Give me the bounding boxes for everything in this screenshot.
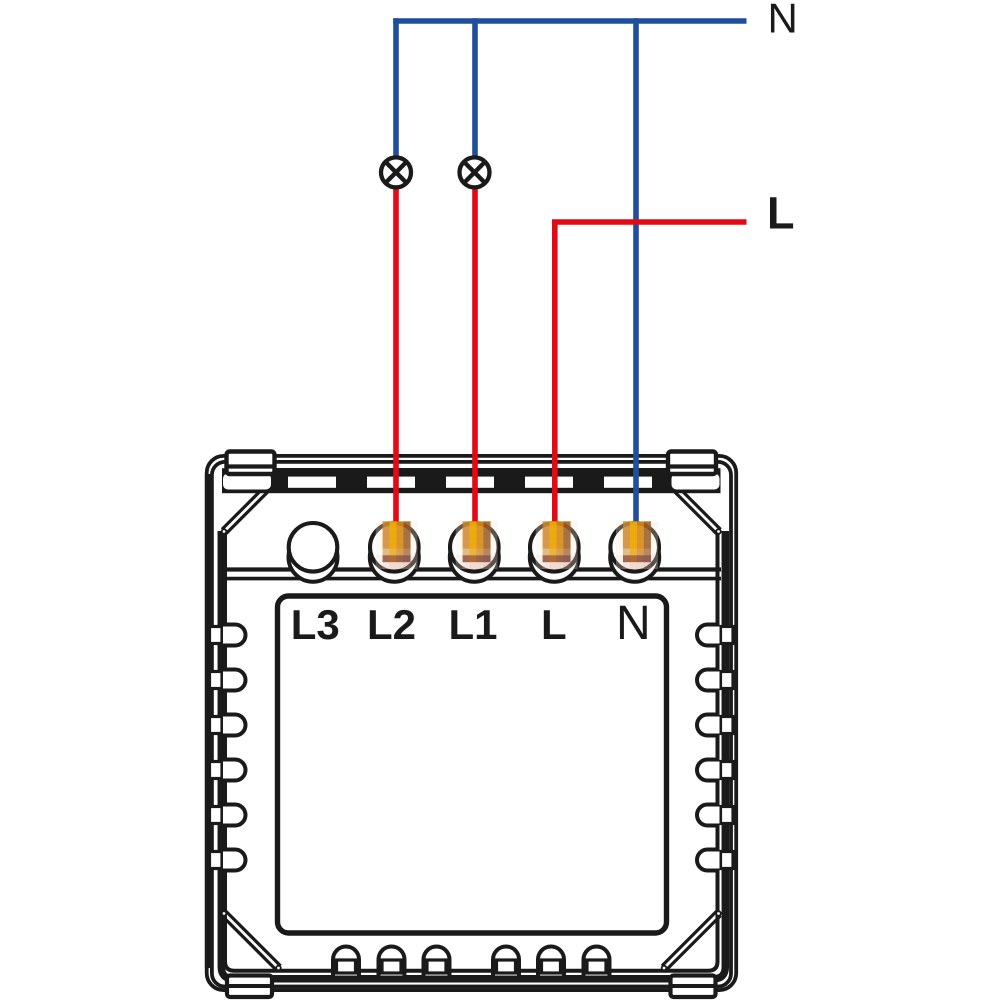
left wall fill (205, 474, 212, 968)
vent slot band (222, 468, 721, 493)
wire neutral drop to terminal N (633, 18, 639, 521)
right clip 5 (697, 805, 733, 826)
vent slot window 6 (604, 477, 652, 488)
bottom clip 3 (424, 947, 450, 976)
wire end mosaic at terminal L (536, 521, 578, 569)
right clip 4 (697, 760, 733, 781)
wire live feed L (red) (555, 222, 747, 522)
wire lamp E2 to terminal L1 (red) (472, 189, 478, 522)
bottom clip 4 (493, 947, 519, 976)
svg-text:L: L (767, 188, 795, 239)
device inner shell top wall (277, 468, 670, 476)
vent slot window 5 (525, 477, 573, 488)
wire end mosaic at terminal L1 (456, 521, 498, 569)
bottom clip 1 (333, 947, 359, 976)
terminal L1 under-arc (450, 533, 499, 582)
wire neutral bus (blue) (393, 18, 746, 24)
inner rail (225, 530, 718, 971)
wire neutral drop to lamp E1 (393, 18, 399, 156)
svg-text:L3: L3 (291, 601, 340, 648)
left clip 4 (210, 760, 246, 781)
vent slot window 3 (367, 477, 415, 488)
terminal L2 under-arc (370, 533, 419, 582)
left clip 6 (210, 850, 246, 871)
svg-text:L1: L1 (448, 601, 497, 648)
right clip 2 (697, 670, 733, 691)
bottom clip 5 (538, 947, 564, 976)
terminal L opening (530, 523, 579, 572)
chamfer top-right (662, 475, 721, 534)
vent slot window 2 (288, 477, 336, 488)
bottom clip 6 (584, 947, 610, 976)
right clip 1 (697, 625, 733, 646)
terminal N under-arc (610, 533, 659, 582)
wire neutral drop to lamp E2 (472, 18, 478, 156)
device outer case (207, 456, 737, 990)
terminal ledge upper line (223, 567, 721, 571)
lamp E1 (381, 157, 411, 187)
right clip 6 (697, 850, 733, 871)
bottom clip 2 (379, 947, 405, 976)
terminal ledge lower line (223, 577, 721, 581)
mounting tab bottom-left (227, 976, 272, 998)
mounting tab top-right (668, 452, 716, 475)
mounting tab top-left (227, 452, 275, 475)
svg-text:L: L (541, 601, 567, 648)
left clip 5 (210, 805, 246, 826)
lamp E2 (460, 157, 490, 187)
vent slot corner-right window (672, 474, 720, 490)
inner label plate (278, 596, 667, 933)
wire end mosaic at terminal N (616, 521, 658, 569)
vent slot window 4 (446, 477, 494, 488)
chamfer bottom-right (662, 911, 721, 970)
chamfer bottom-left (222, 911, 281, 970)
terminal L2 opening (370, 523, 419, 572)
left clip 3 (210, 715, 246, 736)
terminal L3 under-arc (289, 533, 338, 582)
svg-text:N: N (616, 597, 651, 650)
device outer case inner line (212, 462, 731, 987)
terminal L3 opening (289, 523, 338, 572)
svg-text:L2: L2 (367, 601, 416, 648)
terminal N opening (610, 523, 659, 572)
left clip 2 (210, 670, 246, 691)
wire lamp E1 to terminal L2 (red) (393, 189, 399, 522)
chamfer top-left (222, 475, 281, 534)
wire end mosaic at terminal L2 (376, 521, 418, 569)
terminal L under-arc (530, 533, 579, 582)
vent slot corner-left window (223, 474, 271, 490)
right clip 3 (697, 715, 733, 736)
left clip 1 (210, 625, 246, 646)
mounting tab bottom-right (671, 976, 716, 998)
device inner shell side and bottom walls (221, 531, 725, 979)
terminal L1 opening (450, 523, 499, 572)
svg-text:N: N (768, 0, 798, 42)
